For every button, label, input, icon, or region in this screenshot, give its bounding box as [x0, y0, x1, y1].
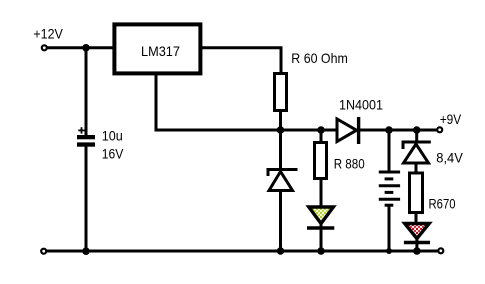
battery BT1 plate short 1: [385, 177, 394, 180]
terminal +12V input: [42, 45, 47, 50]
junction node: zener 8.4V top: [413, 126, 421, 134]
svg-text:1N4001: 1N4001: [339, 96, 383, 112]
terminal 0V left: [41, 249, 46, 254]
junction node: capacitor bottom: [82, 247, 90, 255]
wire R60 bottom to output node: [279, 112, 282, 130]
diode D1 cathode bar: [357, 117, 360, 144]
0V return rail: [47, 250, 439, 253]
terminal +9V output: [437, 127, 442, 132]
junction node: R60 / ADJ / zener: [277, 126, 285, 134]
capacitor C1 polarity + mark: [78, 127, 84, 133]
zener diode D4 8.4V wire from rail: [415, 130, 418, 142]
zener diode D2 triangle: [269, 172, 293, 191]
junction node: input / capacitor: [82, 44, 90, 52]
svg-text:R 60 Ohm: R 60 Ohm: [291, 50, 348, 66]
diode D1 1N4001 triangle: [337, 119, 357, 142]
junction node: LED D3 bottom: [317, 247, 325, 255]
resistor R2 880 body: [315, 143, 327, 179]
zener diode D4 cathode bar with hook: [403, 142, 431, 149]
wire LM317 ADJ pin down and right to output node: [156, 73, 281, 130]
svg-text:16V: 16V: [102, 145, 124, 161]
battery BT1 plate long 2: [379, 184, 400, 187]
zener diode D2 cathode bar with hook: [268, 170, 298, 177]
svg-text:LM317: LM317: [141, 43, 180, 59]
zener diode D4 triangle: [404, 144, 429, 163]
wire R880 top: [320, 130, 323, 143]
capacitor C1 plate bottom: [77, 142, 95, 146]
wire +12V terminal to LM317 input: [47, 46, 114, 49]
wire R670 bottom to LED D5: [415, 213, 418, 225]
svg-text:8,4V: 8,4V: [436, 150, 463, 166]
resistor R1 60 Ohm body: [275, 74, 287, 111]
svg-text:R 880: R 880: [334, 156, 365, 172]
wire capacitor - down to 0V rail: [85, 147, 88, 252]
svg-text:10u: 10u: [102, 128, 123, 144]
wire input node down to capacitor +: [85, 48, 88, 136]
junction node: R880 top: [317, 126, 325, 134]
wire LED D3 to 0V rail: [320, 223, 323, 251]
wire battery top: [388, 130, 391, 172]
wire zener D2 anode to 0V rail: [279, 191, 282, 252]
battery BT1 plate short 3: [385, 204, 394, 207]
svg-text:+12V: +12V: [33, 26, 63, 42]
wire battery bottom to 0V rail: [388, 205, 391, 251]
junction node: battery bottom: [386, 248, 392, 254]
battery BT1 plate long 1: [379, 171, 400, 174]
LED D3 green triangle: [309, 207, 334, 224]
wire output rail to diode anode: [281, 129, 338, 132]
junction node: zener D2 bottom: [277, 247, 285, 255]
wire zener D4 anode to R670: [415, 163, 418, 173]
battery BT1 plate long 3: [379, 198, 400, 201]
terminal 0V right: [438, 248, 443, 253]
junction node: LED D5 bottom: [413, 247, 421, 255]
wire LM317 OUT to R60 top: [200, 48, 281, 73]
svg-text:R670: R670: [429, 196, 456, 212]
battery BT1 plate short 2: [385, 191, 394, 194]
resistor R3 670 body: [410, 173, 423, 213]
LED D3 cathode bar: [307, 226, 334, 229]
LED D5 red triangle: [405, 224, 430, 239]
capacitor C1 plate top: [77, 135, 95, 139]
wire R880 bottom to LED D3: [320, 179, 323, 209]
regulator U1 LM317 body: [114, 24, 200, 73]
LED D5 cathode bar: [404, 241, 430, 244]
wire LED D5 to 0V rail: [415, 238, 418, 251]
svg-text:+9V: +9V: [440, 111, 462, 127]
wire diode cathode to +9V terminal: [360, 129, 438, 132]
zener diode D2 wire from output node: [279, 130, 282, 169]
junction node: battery top: [385, 126, 393, 134]
